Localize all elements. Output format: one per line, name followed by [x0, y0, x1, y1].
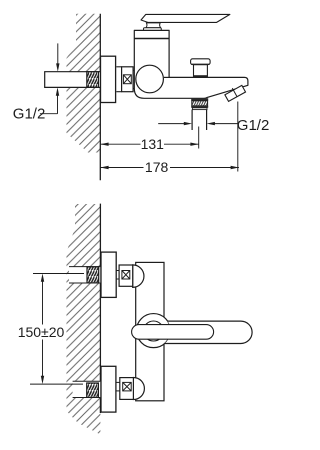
svg-text:131: 131	[141, 136, 165, 152]
svg-text:178: 178	[145, 159, 169, 175]
svg-text:150±20: 150±20	[18, 324, 65, 340]
svg-text:G1/2: G1/2	[13, 106, 46, 123]
svg-text:G1/2: G1/2	[237, 117, 270, 134]
